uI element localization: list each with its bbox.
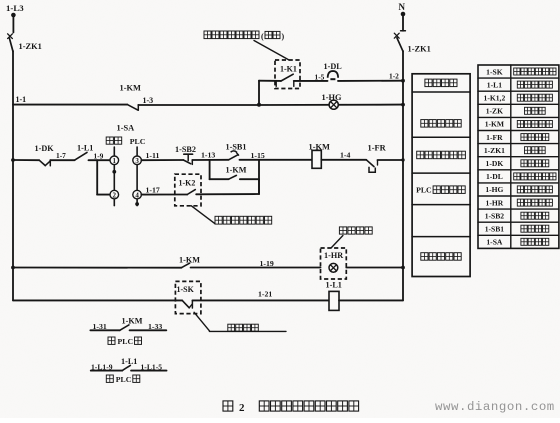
label 1-ZK1 (left) (19, 42, 42, 51)
svg-text:1-L1: 1-L1 (77, 144, 93, 153)
dashed box 1-SK (pull-cord switch) (175, 281, 201, 313)
svg-text:3: 3 (135, 157, 139, 165)
label 1-15 (251, 151, 265, 160)
label 1-1 (16, 95, 27, 104)
svg-text:1-L1: 1-L1 (487, 80, 502, 89)
svg-text:1: 1 (113, 157, 117, 165)
wire 1-L1-9 (91, 370, 122, 372)
svg-text:1-19: 1-19 (260, 259, 274, 268)
wire 1-11 (141, 159, 183, 161)
wire 1-13 (192, 159, 228, 161)
knife switch 1-DK (39, 160, 50, 166)
lamp 1-HG (stop indicator) (329, 100, 338, 109)
wire bell branch mid (294, 80, 328, 82)
label 1-17 (146, 185, 160, 194)
label 至PLC柜 (fragment 2) (106, 375, 140, 384)
label 1-KM (fragment) (122, 317, 143, 326)
svg-text:1-SB1: 1-SB1 (226, 142, 247, 151)
wire 1-17 (141, 194, 174, 196)
label 1-SB2 (175, 145, 196, 154)
node 1-L3 terminal (11, 13, 16, 18)
switch contact 1 (circled 1) (110, 156, 119, 165)
junction on left bus at rung 2 (11, 158, 15, 162)
wire 1-19 (191, 267, 321, 269)
svg-text:1-11: 1-11 (146, 151, 160, 160)
svg-text:1-SB1: 1-SB1 (485, 224, 505, 233)
svg-text:www.diangon.com: www.diangon.com (435, 400, 555, 414)
wire left bus upper (12, 15, 14, 33)
node 1-L3 label (6, 3, 24, 13)
label 1-KM (rung 1) (120, 84, 141, 93)
svg-text:1-KM: 1-KM (485, 120, 504, 129)
svg-text:1-33: 1-33 (148, 322, 162, 331)
pushbutton 1-SB2 (NC stop) (183, 154, 192, 164)
wire rung2 to right bus (378, 159, 404, 161)
wire 1-21 (192, 299, 329, 301)
label 起动预告 (425, 79, 457, 87)
label 1-3 (143, 96, 154, 105)
switch 1-SA column 2 wire (136, 147, 138, 206)
label 1-L1 (coil) (326, 280, 342, 289)
label 1-K2 (179, 179, 196, 188)
wire 1-3 continued to right bus (259, 104, 403, 106)
label 1-HR (324, 251, 343, 260)
wire branch to SA contact 2 (97, 160, 110, 194)
svg-text:1-KM: 1-KM (309, 142, 330, 151)
dashed box (existing output relay cabinet) (275, 60, 300, 89)
svg-text:2: 2 (113, 191, 117, 199)
legend row 1-ZK1 (484, 146, 545, 155)
wire rung2 seg a (13, 159, 39, 161)
label 1-ZK1 (right) (408, 45, 431, 54)
wire 1-1 (13, 104, 127, 106)
node N label (399, 2, 406, 12)
contact 1-KM (rung 3) (181, 263, 189, 268)
svg-text:1-2: 1-2 (389, 71, 399, 80)
label 1-11 (146, 151, 160, 160)
label PLC联锁运行 (416, 186, 465, 195)
svg-text:1-L1: 1-L1 (326, 280, 342, 289)
label 运行指示灯 (421, 253, 461, 261)
svg-text:(: ( (261, 32, 264, 41)
legend row 1-DK (486, 159, 549, 168)
wire branch down to KM aux (209, 160, 211, 179)
svg-text:1-SB2: 1-SB2 (485, 211, 505, 220)
wire bell branch left (259, 80, 281, 82)
svg-text:1-31: 1-31 (93, 322, 107, 331)
svg-text:1-FR: 1-FR (368, 144, 387, 153)
label 至机旁箱 (upper) (339, 227, 372, 234)
wire rung3 seg a (13, 267, 181, 269)
legend table grid (478, 65, 559, 248)
label 至PLC柜 (fragment 1) (108, 337, 142, 346)
svg-text:1-KM: 1-KM (122, 317, 143, 326)
legend row 1-HR (486, 198, 553, 207)
svg-text:PLC: PLC (118, 337, 134, 346)
junction right bus / rung 1-1 (401, 103, 405, 107)
svg-text:1-KM: 1-KM (226, 165, 247, 174)
svg-text:1-DL: 1-DL (324, 62, 343, 71)
svg-text:1-5: 1-5 (315, 73, 325, 82)
junction right bus / bell rung (401, 79, 405, 83)
label 1-21 (258, 290, 272, 299)
contact 1-KM (NC on rung 1) (127, 105, 138, 111)
svg-text:1-HR: 1-HR (324, 251, 343, 260)
wire 1-L1-5 (131, 370, 166, 372)
svg-text:1-KM: 1-KM (179, 255, 200, 264)
legend row 1-SA (486, 238, 548, 247)
caption 自动转换控制原理图 (259, 401, 358, 411)
contact 1-KM (PLC feedback) (120, 325, 129, 330)
wire rung2 seg c (89, 159, 111, 161)
legend row 1-KM (485, 120, 553, 129)
legend row 1-L1 (487, 80, 553, 89)
label 1-KM (coil) (309, 142, 330, 151)
wire left bus (vertical) (12, 51, 14, 300)
wire 1-15 (240, 159, 313, 161)
svg-text:1-21: 1-21 (258, 290, 272, 299)
wire 1-3 (138, 104, 259, 106)
label 1-2 (389, 71, 399, 80)
label 至机旁箱 (lower) (228, 324, 258, 331)
label 1-L1 (rung2) (77, 144, 93, 153)
svg-text:PLC: PLC (130, 137, 146, 146)
svg-text:1-1: 1-1 (16, 95, 27, 104)
svg-text:1-K1: 1-K1 (280, 64, 297, 73)
wire right vertical of SB1 cell (258, 160, 260, 194)
pointer line to K1 cabinet (254, 41, 289, 61)
svg-text:1-ZK: 1-ZK (486, 107, 503, 116)
watermark www.diangon.com (435, 400, 555, 414)
label 1-L1-5 (141, 362, 163, 371)
svg-text:): ) (282, 32, 285, 41)
function annotation boxes column (412, 74, 470, 277)
svg-text:1-K2: 1-K2 (179, 179, 196, 188)
svg-text:1-KM: 1-KM (120, 84, 141, 93)
svg-text:1-SK: 1-SK (486, 67, 503, 76)
svg-text:1-HG: 1-HG (485, 185, 503, 194)
svg-text:N: N (399, 2, 406, 12)
legend row 1-HG (485, 185, 552, 194)
label 1-L1-9 (91, 362, 113, 371)
legend row 1-SK (486, 67, 556, 76)
label 自输出继电器柜(原有) (204, 31, 285, 41)
label 停止信号灯 (421, 120, 461, 128)
label 1-L1 (fragment) (121, 357, 137, 366)
label 自输出继电器柜 (pointer) (215, 216, 272, 224)
label 1-33 (148, 322, 162, 331)
label 1-9 (94, 151, 104, 160)
junction node riser to K1 branch (257, 103, 261, 107)
label 1-SA (117, 124, 135, 133)
svg-text:4: 4 (135, 191, 139, 199)
dashed box 1-K2 (output relay cabinet) (175, 174, 201, 206)
wire rung3 seg b (346, 267, 403, 269)
svg-text:1-9: 1-9 (94, 151, 104, 160)
pointer line to HR box (331, 236, 343, 248)
contact 1-K2 (NO) (175, 190, 196, 195)
contact 1-K1 (NO) (276, 74, 294, 86)
switch 1-SA position dot col2 (135, 202, 139, 206)
svg-text:PLC: PLC (116, 375, 132, 384)
svg-text:1-SB2: 1-SB2 (175, 145, 196, 154)
svg-text:1-K1,2: 1-K1,2 (484, 93, 506, 102)
label 机旁 (106, 137, 122, 144)
svg-text:1-DL: 1-DL (486, 172, 503, 181)
junction right bus / rung 2 (401, 158, 404, 161)
svg-text:1-DK: 1-DK (486, 159, 504, 168)
label 1-5 (315, 73, 325, 82)
caption 图2 (223, 401, 245, 414)
label 1-4 (340, 151, 350, 160)
pointer line from SK box (194, 312, 286, 331)
label 1-SB1 (226, 142, 247, 151)
wire rung4 seg b (339, 299, 403, 301)
wire right bus (vertical) (402, 51, 404, 300)
label 1-19 (260, 259, 274, 268)
svg-text:1-3: 1-3 (143, 96, 154, 105)
switch 1-SA column 1 wire (113, 147, 115, 206)
label 1-HG (322, 93, 342, 102)
wire right bus upper (401, 14, 406, 31)
label 1-31 (93, 322, 107, 331)
svg-text:1-ZK1: 1-ZK1 (19, 42, 42, 51)
wire 1-4 (321, 159, 366, 161)
coil 1-L1 (329, 291, 339, 310)
legend row 1-ZK (486, 107, 545, 116)
wire riser to bell branch (258, 81, 260, 105)
svg-text:1-15: 1-15 (251, 151, 265, 160)
wire K2 branch to junction (196, 179, 259, 194)
coil 1-KM (contactor coil) (312, 150, 321, 168)
svg-text:PLC: PLC (416, 186, 432, 195)
junction right bus / rung 3 (401, 266, 405, 270)
pointer line from K2 box (191, 206, 215, 224)
label 1-SK (177, 285, 195, 294)
svg-text:1-SK: 1-SK (177, 285, 195, 294)
svg-text:1-DK: 1-DK (35, 144, 55, 153)
svg-text:1-L1-9: 1-L1-9 (91, 362, 113, 371)
svg-text:1-SA: 1-SA (486, 238, 503, 247)
lamp 1-HR (run indicator) (329, 263, 338, 272)
legend row 1-SB2 (485, 211, 549, 220)
svg-text:1-L1: 1-L1 (121, 357, 137, 366)
thermal relay contact 1-FR (366, 160, 377, 173)
pushbutton 1-SB1 (NO start) (229, 151, 239, 160)
node N terminal (401, 12, 406, 17)
dashed box 1-HR (at local box) (321, 248, 347, 279)
bell 1-DL (warning bell) (328, 71, 338, 80)
switch contact 3 (circled 3) (133, 156, 142, 165)
svg-text:1-SA: 1-SA (117, 124, 135, 133)
label 1-DL (324, 62, 343, 71)
svg-text:1-7: 1-7 (56, 151, 66, 160)
label 1-13 (201, 150, 215, 159)
circuit breaker 1-ZK1 (left) (8, 34, 13, 52)
label 1-K1 (280, 64, 297, 73)
svg-text:1-L3: 1-L3 (6, 3, 24, 13)
legend row 1-SB1 (485, 224, 549, 233)
label 1-FR (368, 144, 387, 153)
label 1-DK (35, 144, 55, 153)
legend row 1-K1,2 (484, 93, 553, 102)
switch 1-SA position dot col1 (112, 170, 116, 174)
svg-text:1-17: 1-17 (146, 185, 160, 194)
junction on left bus at rung 3 (11, 266, 15, 270)
svg-text:1-ZK1: 1-ZK1 (408, 45, 431, 54)
svg-text:1-4: 1-4 (340, 151, 350, 160)
wire rung2 seg b (50, 159, 74, 161)
label 机旁手动运行 (417, 151, 466, 159)
label 1-KM (rung3) (179, 255, 200, 264)
legend row 1-DL (486, 172, 556, 181)
label PLC (130, 137, 146, 146)
svg-text:1-ZK1: 1-ZK1 (484, 146, 505, 155)
circuit breaker 1-ZK1 (right) (394, 33, 403, 51)
svg-text:1-HR: 1-HR (486, 198, 504, 207)
label 1-KM (aux) (226, 165, 247, 174)
contact 1-KM (aux, parallel with SB1) (210, 175, 259, 179)
switch contact 2 (circled 2) (110, 190, 119, 199)
contact 1-L1 (NO) (75, 152, 88, 160)
svg-text:2: 2 (239, 402, 245, 414)
switch contact 4 (circled 4) (133, 190, 142, 199)
svg-text:1-L1-5: 1-L1-5 (141, 362, 163, 371)
wire 1-33 (130, 329, 167, 331)
svg-text:1-13: 1-13 (201, 150, 215, 159)
label 1-7 (56, 151, 66, 160)
wire rung4 seg a (13, 299, 182, 301)
contact 1-L1 (PLC feedback) (122, 365, 130, 370)
svg-text:1-FR: 1-FR (486, 133, 503, 142)
contact 1-SK (182, 300, 192, 308)
wire bell branch right (338, 80, 403, 82)
legend row 1-FR (486, 133, 549, 142)
wire 1-31 (90, 329, 119, 331)
